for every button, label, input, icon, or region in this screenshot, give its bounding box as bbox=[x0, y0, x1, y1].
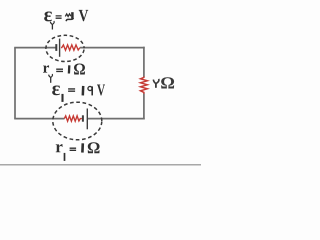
equals sign of r2 label bbox=[56, 69, 63, 71]
internal resistance r1 zigzag bbox=[64, 116, 82, 121]
battery U2 short plate bbox=[55, 44, 57, 51]
battery U2 long plate bbox=[59, 39, 61, 57]
persian digit 1 (value of r1) bbox=[81, 143, 84, 152]
dashed ellipse around battery 1 bbox=[53, 102, 102, 140]
wire right branch lower segment bbox=[143, 94, 145, 120]
battery U1 short plate bbox=[82, 115, 84, 121]
equals sign of EMF2 label bbox=[56, 16, 62, 18]
epsilon of EMF2 label bbox=[44, 12, 52, 22]
persian digit 3 (value of EMF2) bbox=[65, 14, 71, 17]
equals sign of EMF1 label bbox=[68, 89, 75, 91]
Omega unit of r1 label bbox=[88, 142, 100, 153]
internal resistance r2 zigzag bbox=[61, 45, 80, 50]
r of internal resistance 1 label bbox=[56, 144, 63, 152]
persian subscript 1 under epsilon1 bbox=[61, 94, 63, 102]
wire right branch upper segment bbox=[143, 47, 145, 77]
wire top branch left segment bbox=[14, 47, 56, 49]
resistor R 2-ohm vertical zigzag bbox=[141, 77, 148, 94]
persian digit 2 (value of external resistor) bbox=[153, 80, 156, 84]
wire bottom branch left segment bbox=[14, 118, 64, 120]
wire bottom branch right segment bbox=[87, 118, 144, 120]
persian subscript 2 under r2 bbox=[49, 75, 51, 78]
persian subscript 2 under epsilon2 bbox=[50, 22, 52, 25]
wire left branch bbox=[14, 48, 16, 119]
dashed ellipse around battery 2 bbox=[46, 35, 84, 61]
r of internal resistance 2 label bbox=[43, 65, 49, 72]
page rule at bottom bbox=[0, 164, 201, 166]
persian digit 9 (ones of EMF1 value) bbox=[88, 86, 92, 90]
persian subscript 1 under r1 bbox=[64, 153, 66, 161]
persian digit 1 (value of r2) bbox=[68, 65, 71, 73]
V unit of EMF2 label bbox=[79, 10, 89, 21]
Omega unit of r2 label bbox=[74, 64, 85, 75]
Omega unit of external resistor label bbox=[161, 77, 174, 88]
equals sign of r1 label bbox=[70, 148, 77, 150]
V unit of EMF1 label bbox=[97, 85, 105, 96]
persian digit 1 (tens of EMF1 value) bbox=[82, 86, 85, 96]
wire top branch right segment bbox=[80, 47, 145, 49]
epsilon of EMF1 label bbox=[52, 85, 60, 95]
battery U1 long plate bbox=[86, 109, 88, 130]
